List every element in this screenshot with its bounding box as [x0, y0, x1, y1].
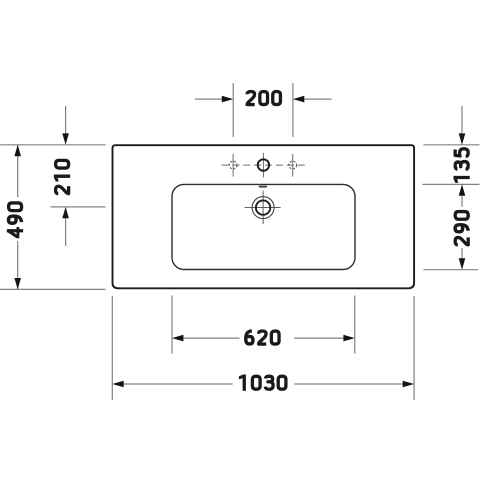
overflow drain inner circle [256, 200, 270, 214]
wire: left mid extension line (210 dim) [51, 206, 106, 208]
wire: top-right extension line of basin top edge [424, 144, 480, 146]
dim 1030: label [239, 375, 286, 391]
dim 490: dimension line [17, 145, 19, 290]
dim 490: label [6, 197, 24, 241]
basin outer rim [113, 145, 415, 288]
dim 620: dimension line [183, 337, 239, 339]
wire: right mid extension line (135/290 boundary) [423, 183, 480, 185]
dim 290: dimension line with inner-outward arrows [459, 184, 466, 195]
wire: bottom-left extension line of basin bottom edge [0, 288, 106, 290]
wire: right lower extension line (290 end) [424, 269, 479, 271]
tap hole right dashed circle [289, 161, 297, 169]
dim 1030: dimension line [124, 383, 233, 385]
dim 290: label [455, 212, 468, 245]
wire: top-left extension line of basin top edge [0, 144, 106, 146]
dim 200: right arrow [304, 98, 331, 100]
dim 620: label [246, 331, 279, 344]
dim 1030: extension lines [111, 296, 113, 400]
overflow drain outer circle [252, 197, 274, 219]
overflow drain crosshair [245, 191, 281, 224]
dim 620: extension lines [171, 296, 173, 354]
dim 210: label [54, 160, 70, 193]
dim 200: label [247, 92, 280, 105]
dim 135: label [453, 149, 469, 183]
tap hole right vertical centerline [292, 154, 294, 177]
tap hole left dashed circle [229, 161, 237, 169]
overflow slot [259, 186, 268, 188]
dim 135: top outside arrow [461, 106, 463, 133]
dim 200: extension lines [232, 83, 234, 137]
tap hole center circle [258, 159, 269, 170]
tap holes horizontal dashed centerline [222, 164, 305, 166]
dim 200: left arrow [195, 98, 222, 100]
tap hole left vertical centerline [232, 154, 234, 177]
dim 210: top outside arrow [65, 106, 67, 133]
tap hole center vertical centerline [262, 153, 264, 178]
basin inner bowl [172, 184, 355, 269]
dim 210: bottom outside arrow [65, 218, 67, 246]
